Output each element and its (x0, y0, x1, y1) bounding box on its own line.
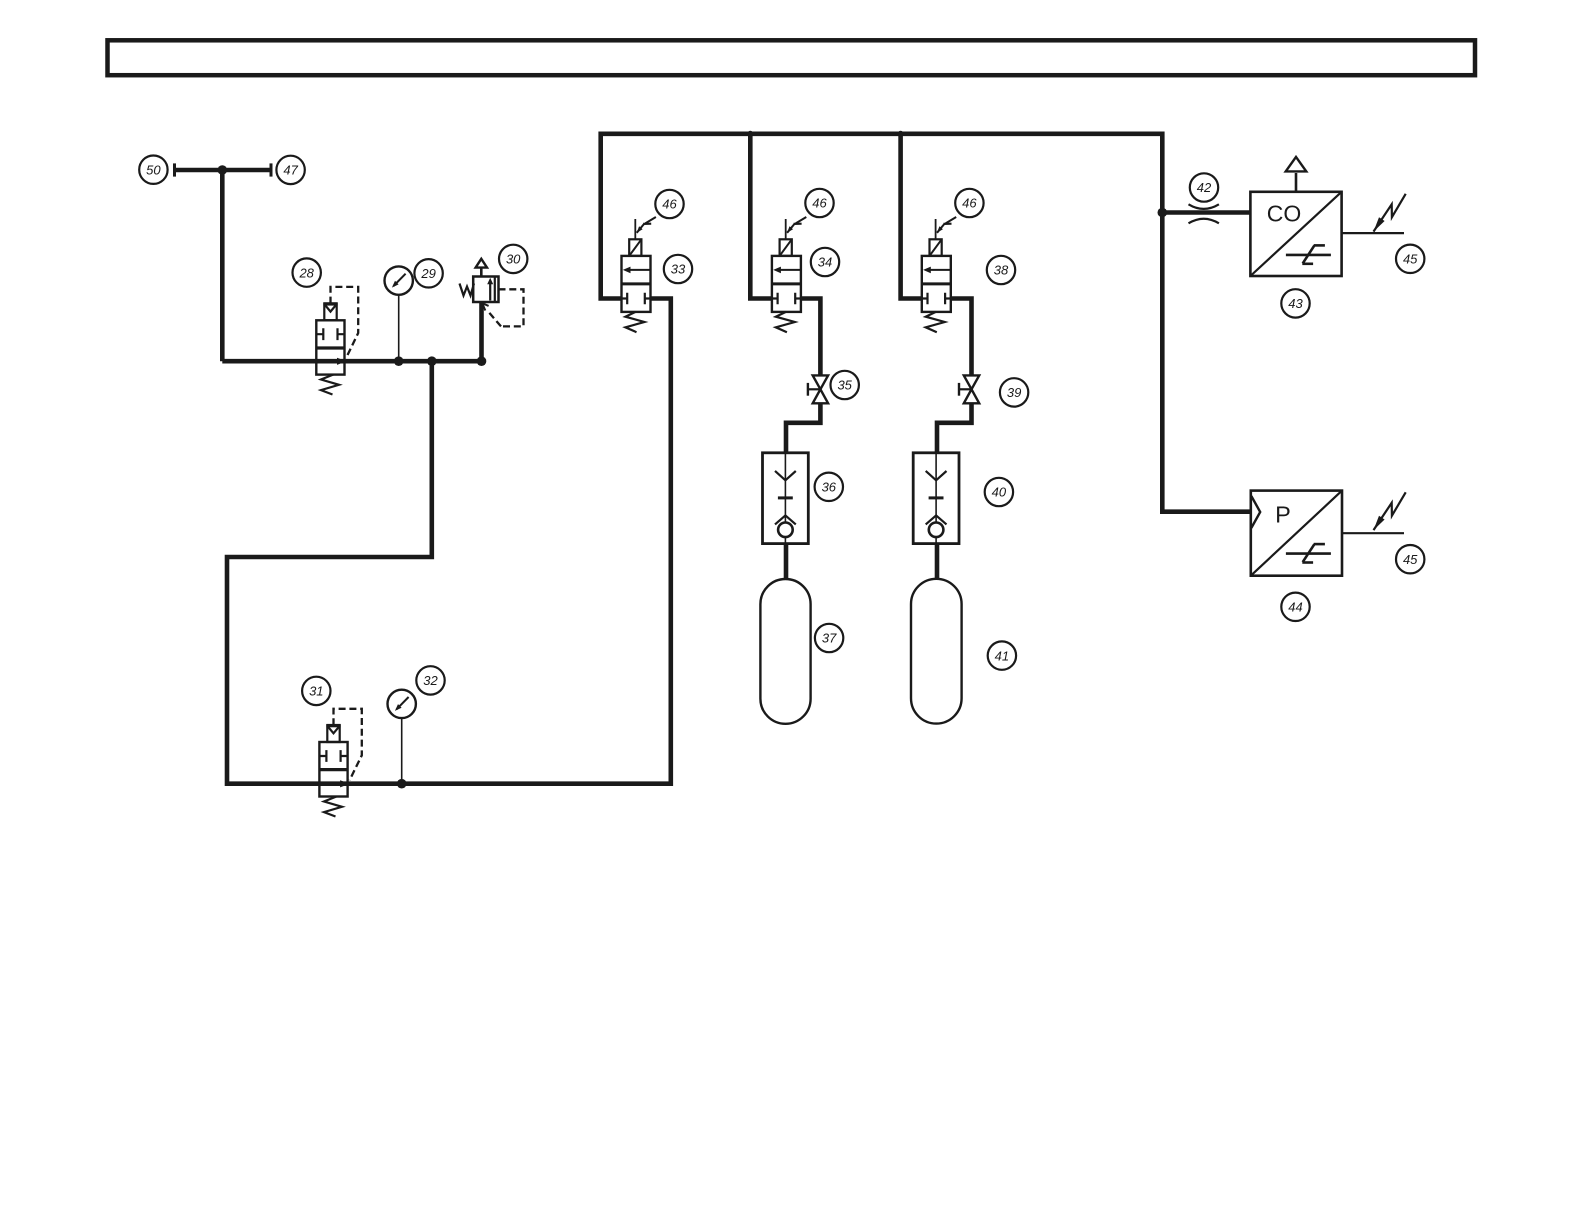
svg-text:47: 47 (283, 163, 298, 178)
label 45 upper (1396, 245, 1424, 273)
P transmitter 44 (1251, 491, 1342, 576)
svg-text:37: 37 (822, 631, 837, 646)
svg-text:46: 46 (962, 196, 977, 211)
label 35 (831, 371, 859, 399)
shutoff valve 35 (808, 375, 828, 403)
wire: valve 30 pilot dashed line (488, 289, 524, 326)
svg-text:CO: CO (1267, 201, 1302, 227)
svg-text:P: P (1275, 502, 1291, 528)
wire: bus drop to valve 38 (901, 134, 922, 299)
wire: header line between 50 and 47 (174, 168, 272, 173)
shutoff valve 39 (959, 375, 979, 403)
wire: branch to CO analyzer through orifice 42 (1162, 210, 1250, 215)
label 37 (815, 624, 843, 652)
label 45 lower (1396, 545, 1424, 573)
node: bus junction above valve 34 (747, 131, 753, 137)
valve 28 pressure regulator body (316, 304, 346, 395)
valve 34 solenoid valve (772, 217, 806, 332)
svg-text:42: 42 (1197, 180, 1212, 195)
wire: valve 28 pilot dashed line (331, 287, 359, 358)
node: gauge 29 junction (394, 356, 404, 366)
wire: lower distribution loop from branch through valve 31 up to valve 33 (227, 299, 671, 784)
label 46 at valve 33 (655, 190, 683, 218)
wire: valve 38 outlet down to shutoff 39 (951, 299, 971, 376)
wire: filter 36 to accumulator 37 (784, 544, 789, 579)
label 39 (1000, 378, 1028, 406)
svg-text:45: 45 (1403, 252, 1418, 267)
label 32 (416, 666, 444, 694)
wire: CO analyzer electric output with lightning 45 (1342, 194, 1406, 233)
wire: P transmitter electric output with lightning 45 (1342, 492, 1406, 533)
CO analyzer 43 (1250, 157, 1341, 276)
svg-text:36: 36 (822, 480, 837, 495)
svg-text:43: 43 (1288, 296, 1303, 311)
gauge 29 (385, 266, 413, 361)
svg-text:39: 39 (1007, 385, 1021, 400)
svg-text:46: 46 (662, 197, 677, 212)
wire: valve 34 outlet down to shutoff 35 (801, 299, 820, 376)
label 31 (302, 677, 330, 705)
valve 33 solenoid valve (622, 217, 656, 332)
filter check unit 36 (763, 453, 809, 544)
label 46 at valve 34 (805, 189, 833, 217)
svg-text:31: 31 (309, 684, 323, 699)
node: branch junction to lower loop (427, 356, 437, 366)
label 50 (139, 156, 167, 184)
label 33 (664, 255, 692, 283)
node: junction to CO analyzer branch (1158, 208, 1168, 218)
filter check unit 40 (913, 453, 959, 544)
label 36 (815, 473, 843, 501)
valve 30 relief valve (460, 259, 499, 311)
node: gauge 32 junction (397, 779, 407, 789)
svg-text:44: 44 (1288, 600, 1302, 615)
wire: top bus with left drop to valve 33 and right drop to analyzers (601, 134, 1251, 512)
label 34 (811, 248, 839, 276)
svg-text:34: 34 (818, 255, 832, 270)
node: bus junction above valve 38 (898, 131, 904, 137)
valve 38 solenoid valve (922, 217, 956, 332)
wire: shutoff 35 to filter 36 (786, 403, 820, 452)
label 29 (414, 259, 442, 287)
label 47 (276, 156, 304, 184)
svg-text:45: 45 (1403, 552, 1418, 567)
svg-text:50: 50 (146, 162, 161, 177)
orifice 42 (1189, 204, 1219, 223)
title bar frame (108, 40, 1476, 75)
label 38 (987, 256, 1015, 284)
wire: left end tick at 50 (173, 163, 176, 176)
svg-text:35: 35 (837, 378, 852, 393)
svg-text:38: 38 (994, 263, 1009, 278)
node: corner junction at valve 30 riser (477, 356, 487, 366)
accumulator 41 (911, 579, 962, 724)
label 30 (499, 245, 527, 273)
wire: shutoff 39 to filter 40 (937, 403, 972, 452)
label 42 (1190, 173, 1218, 201)
wire: right end tick at 47 (270, 163, 273, 176)
svg-text:41: 41 (995, 648, 1009, 663)
valve 31 pressure regulator body (319, 725, 349, 816)
label 46 at valve 38 (955, 189, 983, 217)
label 28 (293, 258, 321, 286)
svg-text:32: 32 (423, 673, 438, 688)
wire: bus drop to valve 34 (750, 134, 772, 299)
label 40 (985, 478, 1013, 506)
wire: reducer outlet line through valve 28 to valve 30 riser (222, 302, 481, 361)
node: header junction (218, 165, 228, 175)
gauge 32 (388, 690, 416, 784)
svg-text:46: 46 (812, 196, 827, 211)
svg-text:40: 40 (992, 485, 1007, 500)
wire: vertical from header to reducer line (220, 170, 225, 361)
svg-text:28: 28 (298, 265, 314, 280)
svg-text:30: 30 (506, 252, 521, 267)
wire: filter 40 to accumulator 41 (935, 544, 940, 579)
label 41 (988, 641, 1016, 669)
label 43 (1281, 289, 1309, 317)
label 44 (1281, 593, 1309, 621)
svg-text:33: 33 (671, 262, 686, 277)
accumulator 37 (760, 579, 810, 724)
wire: valve 31 pilot dashed line (334, 709, 362, 780)
svg-text:29: 29 (420, 266, 435, 281)
